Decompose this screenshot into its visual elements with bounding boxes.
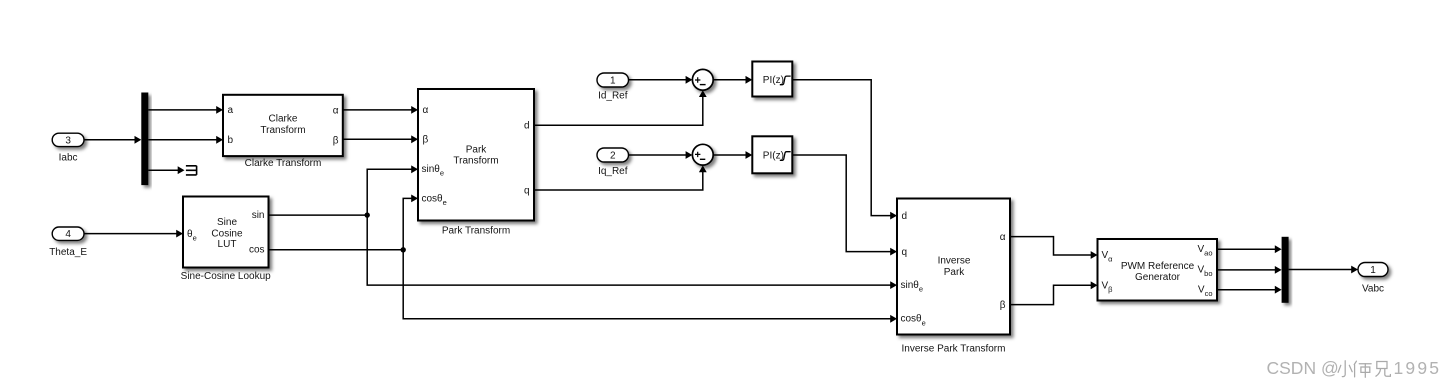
block Inverse Park [897,199,1010,355]
svg-text:α: α [333,105,339,116]
arrow into Mux 1 [1275,245,1282,253]
svg-text:q: q [902,247,908,258]
block Park Transform [418,89,534,237]
svg-text:Vabc: Vabc [1362,284,1384,295]
wire Park d to Sum1 feedback [534,92,703,125]
arrow into PWM Valpha [1091,251,1098,259]
arrow into Sum1 bottom [699,90,707,97]
wire PWM Vao to Mux [1217,248,1280,250]
arrow into Sum2 bottom [699,165,707,172]
arrow into PWM Vbeta [1091,281,1098,289]
block Clarke Transform [223,95,343,169]
svg-text:d: d [902,211,908,222]
arrow into Park sin [411,165,418,173]
arrow into demux [135,136,142,144]
svg-text:α: α [1000,232,1006,243]
svg-text:Park: Park [466,144,488,155]
svg-text:Clarke Transform: Clarke Transform [245,158,322,169]
arrow into Park beta [411,135,418,143]
svg-text:PWM Reference: PWM Reference [1121,261,1195,272]
arrow into InvPark cos [890,315,897,323]
wire Iq_Ref to Sum2 [629,154,691,156]
inport 4 Theta_E [49,227,87,258]
demux Iabc [141,93,148,186]
svg-text:Inverse: Inverse [938,256,971,267]
svg-text:Park: Park [944,267,966,278]
svg-text:3: 3 [65,135,71,146]
svg-text:1995: 1995 [1394,358,1442,378]
svg-text:Id_Ref: Id_Ref [598,90,628,101]
wire Iabc to Demux [84,139,139,141]
arrow into Sum1 left [686,76,693,84]
inport 3 Iabc [52,133,84,163]
svg-text:2: 2 [610,150,616,161]
svg-text:4: 4 [65,229,71,240]
sum Sum2 [692,144,713,165]
wire Sum2 to PI2 [713,154,750,156]
arrow into LUT [176,230,183,238]
svg-text:q: q [524,185,530,196]
svg-text:Theta_E: Theta_E [49,247,87,258]
wire Sum1 to PI1 [713,79,750,81]
arrow into PI2 [746,151,753,159]
arrow into Mux 3 [1275,286,1282,294]
arrow into Park alpha [411,106,418,114]
block PI2 [752,136,792,173]
wire PWM Vco to Mux [1217,289,1280,291]
wire Inverse Park beta to PWM Vbeta [1010,285,1096,304]
svg-text:Cosine: Cosine [211,228,243,239]
svg-text:β: β [333,135,339,146]
mux Vabc [1282,237,1289,303]
arrow into InvPark q [890,248,897,256]
arrow into terminator [178,166,185,174]
svg-text:cos: cos [249,244,265,255]
wire Inverse Park alpha to PWM Valpha [1010,237,1096,255]
wire sin net [269,169,896,285]
wire PI2 to Inverse Park q [793,155,896,252]
node sin junction [365,212,370,217]
svg-text:α: α [423,105,429,116]
arrow into Park cos [411,195,418,203]
arrow into PI1 [746,76,753,84]
svg-text:Generator: Generator [1135,272,1181,283]
svg-text:Park Transform: Park Transform [442,226,510,237]
wire Demux out1 to Clarke a [148,109,221,111]
svg-text:Transform: Transform [453,156,498,167]
svg-text:Clarke: Clarke [269,114,298,125]
wire Clarke beta to Park beta [343,138,416,140]
arrow into InvPark d [890,212,897,220]
wire PWM Vbo to Mux [1217,269,1280,271]
arrow into Clarke b [216,136,223,144]
svg-text:b: b [228,135,234,146]
svg-text:Inverse Park Transform: Inverse Park Transform [902,343,1006,354]
arrow into InvPark sin [890,281,897,289]
svg-text:1: 1 [1370,265,1376,276]
svg-text:Sine-Cosine Lookup: Sine-Cosine Lookup [181,271,271,282]
svg-text:a: a [228,105,234,116]
svg-text:β: β [1000,300,1006,311]
arrow into Vabc outport [1351,266,1358,274]
inport 1 Id_Ref [597,73,629,101]
arrow into Clarke a [216,106,223,114]
svg-text:LUT: LUT [218,239,237,250]
arrow into Mux 2 [1275,266,1282,274]
svg-text:CSDN @: CSDN @ [1267,358,1339,378]
svg-text:sin: sin [252,210,265,221]
inport 2 Iq_Ref [597,148,629,177]
watermark CSDN [1267,358,1442,378]
wire Park q to Sum2 feedback [534,167,703,190]
block PWM Reference Generator [1098,239,1218,301]
svg-text:Iabc: Iabc [59,152,78,163]
svg-text:Sine: Sine [217,217,237,228]
wire Mux to Vabc [1289,269,1356,271]
svg-text:d: d [524,120,530,131]
wire PI1 to Inverse Park d [793,80,896,216]
node cos junction [401,247,406,252]
sum Sum1 [692,69,713,90]
wire cos net [269,198,896,318]
outport 1 Vabc [1358,263,1388,295]
svg-text:Transform: Transform [260,125,305,136]
svg-text:Iq_Ref: Iq_Ref [598,166,628,177]
terminator [186,166,197,175]
wire Demux out2 to Clarke b [148,139,221,141]
wire Clarke alpha to Park alpha [343,109,416,111]
block Sine Cosine LUT [181,197,271,282]
wire Id_Ref to Sum1 [629,79,691,81]
svg-text:1: 1 [610,75,616,86]
svg-text:β: β [423,135,429,146]
block PI1 [752,62,792,97]
arrow into Sum2 left [686,151,693,159]
wire Demux out3 to Terminator [148,169,182,171]
wire Theta_E to LUT [84,233,181,235]
